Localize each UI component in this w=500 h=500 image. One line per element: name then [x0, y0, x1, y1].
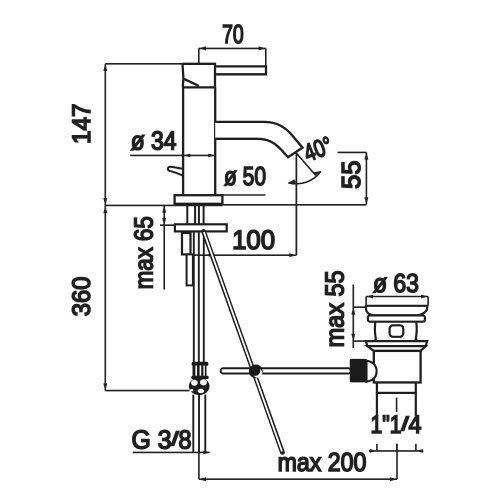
svg-text:100: 100 — [232, 225, 275, 255]
dimension ø63 — [366, 297, 428, 306]
seat flange — [366, 341, 427, 346]
arrow G3/8 — [203, 451, 210, 455]
base flange — [175, 195, 223, 204]
svg-text:max 200: max 200 — [278, 447, 367, 477]
angle 40 arc — [288, 171, 321, 183]
body top line — [183, 86, 215, 88]
arrow 55 bottom — [364, 197, 368, 205]
arrow 1 1/4 right — [416, 449, 423, 453]
drain centerline dash — [396, 398, 398, 452]
arrow arc left end — [288, 179, 296, 183]
svg-text:360: 360 — [68, 277, 96, 317]
arrow max55 bottom — [351, 334, 355, 342]
threads — [193, 366, 207, 377]
ring — [368, 315, 425, 321]
svg-text:ø 34: ø 34 — [131, 126, 177, 156]
arrow 100 left — [205, 253, 212, 257]
arrow max65 bottom — [162, 218, 166, 226]
svg-text:147: 147 — [68, 103, 96, 144]
deck line under flange — [175, 204, 223, 206]
spool body — [374, 322, 418, 341]
tail band — [377, 383, 416, 393]
deck line right segment — [223, 204, 367, 206]
pivot ball joint — [249, 365, 263, 379]
drain body — [366, 306, 427, 416]
leader ø50 — [223, 194, 266, 196]
deck line left segment — [105, 204, 174, 206]
arrow max55 top — [351, 307, 355, 315]
svg-text:max 65: max 65 — [128, 216, 158, 289]
dimension max65 — [160, 205, 175, 289]
pop-up horizontal bar — [221, 368, 351, 373]
svg-text:max 55: max 55 — [320, 270, 350, 347]
arrow ø63 right — [421, 295, 428, 299]
ball body — [189, 378, 210, 396]
shank pipes deck to washer — [187, 206, 203, 225]
svg-text:ø 63: ø 63 — [373, 268, 419, 298]
lever handle — [215, 66, 266, 74]
extension line top at faucet top — [105, 63, 182, 65]
spout — [215, 122, 302, 157]
dimension 55 spout — [338, 152, 367, 204]
cup body — [374, 351, 421, 383]
ball highlight right — [200, 379, 207, 385]
pop-up diagonal rod — [204, 232, 283, 453]
arrow max65 top — [162, 205, 166, 213]
svg-text:ø 50: ø 50 — [224, 161, 266, 191]
side knob — [168, 167, 183, 176]
svg-text:1"1/4: 1"1/4 — [371, 411, 422, 439]
arrow ø34 left — [183, 154, 190, 158]
gasket — [367, 346, 425, 351]
dimension 147/360 vertical line — [104, 64, 106, 391]
supply lines washer to ball — [194, 231, 204, 362]
plug cap — [366, 306, 427, 316]
hose tube — [187, 254, 193, 285]
arrow 360 bottom — [103, 383, 107, 391]
arrow 360 top (at deck) — [103, 206, 107, 214]
arrow ø63 left — [366, 295, 373, 299]
hose ball connector — [189, 362, 210, 395]
clamp screw black — [350, 359, 367, 383]
dimension ø34 line — [130, 154, 215, 156]
svg-text:55: 55 — [336, 161, 366, 190]
supply lines below ball — [193, 395, 205, 453]
ball bottom wedge — [198, 389, 205, 393]
tail tube — [377, 393, 416, 416]
overflow window — [390, 325, 404, 337]
arrow 70 left — [198, 46, 206, 50]
under-deck assembly — [175, 206, 227, 453]
arrow 1 1/4 left — [370, 449, 377, 453]
collar bottom — [191, 376, 208, 379]
angle 40 leg line — [296, 153, 315, 175]
arrow 70 right — [259, 46, 267, 50]
dimension 100 — [191, 158, 297, 255]
cartridge cap — [183, 64, 216, 88]
arrow 147 top — [103, 63, 107, 71]
washer plate — [175, 224, 227, 231]
svg-text:70: 70 — [222, 19, 244, 49]
arrow 147 bottom (at deck) — [103, 198, 107, 206]
faucet body group (object lines) — [168, 64, 303, 204]
arrow 100 right — [289, 253, 296, 257]
arrow ø34 right — [208, 154, 215, 158]
dimension 70 — [199, 48, 266, 74]
arrow arc right end — [313, 171, 321, 176]
ball highlight left — [191, 380, 198, 386]
spout flow vertical line — [295, 153, 297, 255]
screw knob — [367, 361, 377, 382]
arrow max200 right — [390, 477, 398, 481]
extension line at hose ball — [105, 390, 189, 392]
svg-text:G 3/8: G 3/8 — [132, 424, 192, 454]
leader G3/8 — [133, 451, 210, 453]
arrow max200 left — [199, 477, 207, 481]
dimension max55 drain — [353, 284, 366, 348]
dimension 1 1/4 — [369, 444, 423, 452]
hose nut — [182, 233, 191, 254]
dimension max200 — [199, 444, 397, 480]
arrow 55 top — [364, 152, 368, 160]
body sides — [183, 87, 215, 195]
collar top — [192, 362, 209, 366]
